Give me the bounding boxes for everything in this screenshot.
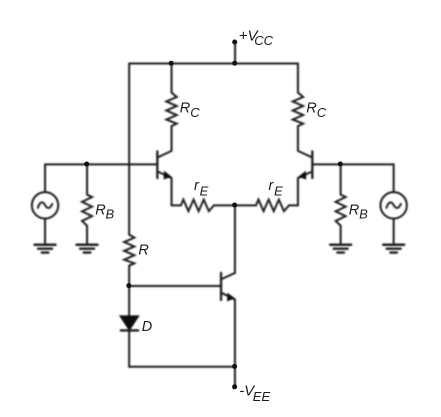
label RB left	[95, 202, 114, 221]
wire left RC top lead	[171, 64, 173, 93]
label D	[142, 319, 152, 335]
svg-text:EE: EE	[253, 389, 271, 404]
wire top supply rail	[129, 63, 298, 65]
wire RB left top lead	[86, 164, 88, 194]
svg-text:C: C	[317, 105, 327, 120]
source VS right	[380, 192, 406, 218]
transistor Q3 bottom	[221, 273, 235, 301]
resistor rE left	[181, 200, 214, 212]
wire Q2 emitter lead	[297, 178, 299, 205]
wire RB right top lead	[340, 164, 342, 194]
wire Q3 emitter lead	[234, 300, 236, 367]
wire Q2 base wire	[312, 164, 393, 192]
label rE right	[269, 178, 284, 199]
ground RB right	[330, 245, 351, 253]
label RC left	[180, 101, 201, 120]
wire Q1 emitter lead	[171, 178, 173, 205]
svg-text:E: E	[274, 183, 283, 198]
resistor R	[124, 235, 134, 266]
node emitter center junction	[232, 203, 237, 208]
resistor RC right	[293, 93, 303, 127]
node base/RB-right junction	[338, 162, 343, 167]
ground VS right	[383, 245, 404, 253]
node R/diode/base junction	[126, 283, 131, 288]
wire Q1 base wire	[45, 163, 157, 165]
node bottom rail junction	[232, 364, 237, 369]
wire right RC top lead	[297, 64, 299, 93]
wire VS left bottom lead	[44, 219, 46, 245]
wire +VCC tap	[234, 42, 236, 63]
svg-text:R: R	[180, 101, 191, 117]
wire VS left top lead	[44, 164, 46, 192]
node base/RB-left junction	[84, 162, 89, 167]
wire rE right to center node	[235, 204, 256, 206]
wire left RC bottom lead to collector	[171, 126, 173, 151]
node rail/RC-left junction	[169, 61, 174, 66]
resistor rE right	[256, 200, 289, 212]
wire RB left bottom lead	[86, 226, 88, 245]
diode D	[120, 316, 139, 331]
svg-text:B: B	[359, 206, 368, 221]
wire rE right lead	[289, 204, 298, 206]
wire VS right bottom lead	[393, 219, 395, 245]
wire R bottom to junction	[128, 266, 130, 316]
node rail/VCC junction	[232, 61, 237, 66]
transistor Q1 left	[157, 151, 171, 179]
wire right RC bottom lead to collector	[297, 126, 299, 151]
wire -VEE tap	[234, 367, 236, 387]
label RC right	[306, 101, 327, 120]
wire bottom rail	[129, 366, 235, 368]
svg-text:B: B	[106, 206, 115, 221]
transistor Q2 right	[298, 151, 312, 179]
ground RB left	[77, 245, 98, 253]
wire diode cathode to bottom rail	[128, 330, 130, 366]
label R	[138, 242, 149, 258]
svg-text:R: R	[138, 242, 149, 258]
wire left branch from rail	[128, 64, 130, 235]
wire center node to Q3 collector	[234, 205, 236, 273]
wire RB right bottom lead	[340, 226, 342, 245]
wire Q3 base wire	[129, 285, 221, 287]
node +VCC terminal dot	[232, 40, 237, 45]
node -VEE terminal dot	[232, 384, 237, 389]
label +VCC	[239, 28, 274, 48]
svg-text:C: C	[190, 105, 200, 120]
svg-text:CC: CC	[254, 33, 273, 48]
label -VEE	[239, 382, 270, 404]
svg-text:E: E	[200, 183, 209, 198]
svg-text:R: R	[306, 101, 317, 117]
resistor RC left	[166, 93, 176, 127]
source VS left	[32, 192, 58, 218]
label RB right	[349, 202, 368, 221]
ground VS left	[35, 245, 56, 253]
wire rE left to center node	[214, 204, 235, 206]
resistor RB left	[82, 195, 92, 226]
label rE left	[194, 178, 209, 199]
wire rE left lead	[172, 204, 181, 206]
resistor RB right	[336, 195, 346, 226]
svg-text:D: D	[142, 319, 152, 335]
